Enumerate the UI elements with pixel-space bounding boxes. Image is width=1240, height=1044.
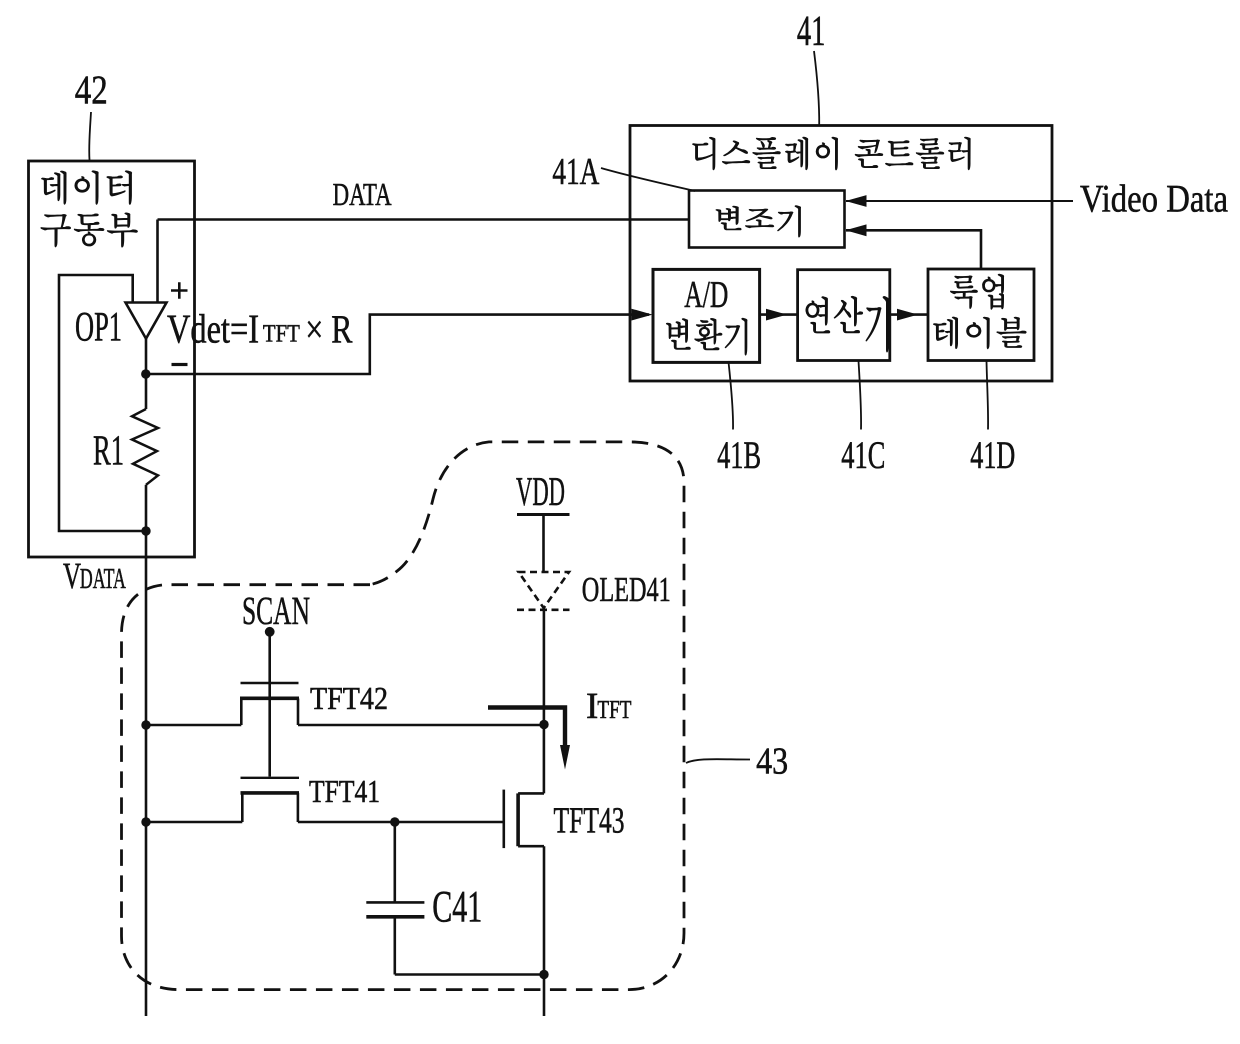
leader line 43	[686, 759, 750, 763]
junction node Vdet sense	[141, 369, 150, 378]
label 연산기	[806, 296, 888, 352]
transistor TFT41 channel	[241, 791, 300, 795]
block 41B: A/D converter box	[653, 269, 760, 362]
label 변환기	[666, 318, 747, 355]
wire Video Data into modulator	[846, 200, 1073, 202]
junction node TFT42 source	[141, 720, 150, 729]
wire bottom storage return	[395, 973, 544, 976]
arrow operator to lookup table	[890, 313, 928, 316]
OLED cathode bar (dashed)	[517, 608, 570, 611]
wire lookup table to modulator	[846, 230, 981, 269]
leader line 41B	[728, 361, 733, 430]
wire op-amp output	[145, 339, 148, 409]
svg-text:OP1: OP1	[75, 305, 122, 351]
TFT41 drain step	[297, 793, 300, 822]
leader line 41D	[987, 361, 989, 430]
arrow A/D to operator	[760, 313, 798, 316]
TFT42 source step	[240, 699, 243, 726]
capacitor C41 top lead	[393, 822, 396, 902]
block 41: display controller box	[630, 126, 1052, 382]
dashed pixel boundary 43	[122, 442, 685, 990]
wire TFT42 source to VDATA	[146, 724, 241, 727]
arrowhead into A/D	[632, 309, 653, 321]
label 변조기	[716, 206, 801, 237]
leader line 41A to modulator	[601, 168, 695, 191]
wire TFT43 source down	[543, 846, 546, 1016]
junction node drain	[539, 720, 548, 729]
wire TFT41 drain to TFT43 gate	[298, 821, 504, 824]
capacitor C41 bottom lead	[393, 917, 396, 975]
arrowhead Video Data	[846, 195, 867, 207]
svg-text:41B: 41B	[717, 434, 761, 477]
svg-text:OLED41: OLED41	[582, 570, 671, 609]
svg-text:42: 42	[75, 67, 108, 113]
wire SCAN gate line	[268, 632, 271, 777]
leader line to box 42	[89, 112, 91, 160]
SCAN terminal dot	[265, 627, 275, 637]
wire TFT41 source to VDATA	[146, 821, 242, 824]
label 테이블	[933, 317, 1026, 349]
block 41D: lookup table box	[928, 269, 1034, 361]
wire VDATA column	[145, 531, 148, 1016]
TFT42 drain step	[297, 699, 300, 726]
svg-text:DATA: DATA	[333, 176, 392, 212]
svg-text:TFT43: TFT43	[554, 801, 625, 842]
leader line to box 41	[814, 51, 819, 126]
block 41C: operator box	[798, 270, 890, 361]
label 구동부	[41, 213, 138, 247]
label 디스플레이 콘트롤러	[693, 137, 971, 170]
current indicator ITFT	[488, 708, 565, 749]
svg-text:TFT: TFT	[597, 695, 631, 724]
transistor TFT43 gate bar	[502, 790, 505, 849]
junction node VDATA feedback	[141, 526, 150, 535]
transistor TFT41 gate bar	[241, 777, 300, 779]
resistor R1 zigzag	[132, 409, 158, 485]
block 41A: modulator box	[689, 191, 845, 248]
svg-text:Video Data: Video Data	[1080, 178, 1228, 221]
label 데이터	[42, 171, 132, 204]
svg-text:TFT: TFT	[263, 321, 300, 348]
wire OLED cathode to TFT43 drain node	[543, 610, 546, 794]
leader line 41C	[859, 361, 862, 430]
capacitor C41 bottom plate	[366, 915, 424, 919]
junction node bottom	[539, 970, 548, 979]
transistor TFT42 gate bar	[241, 682, 299, 684]
TFT43 source step	[518, 845, 544, 848]
svg-text:V: V	[63, 556, 81, 597]
wire Vdet sense to A/D converter	[146, 315, 649, 374]
svg-text:DATA: DATA	[80, 563, 126, 595]
svg-text:TFT41: TFT41	[309, 773, 380, 809]
svg-text:41: 41	[797, 8, 826, 55]
transistor TFT43 channel	[516, 793, 520, 846]
svg-text:Vdet=I: Vdet=I	[167, 306, 259, 352]
wire DATA bus to modulator	[158, 218, 690, 221]
capacitor C41 top plate	[366, 901, 424, 904]
block 42: data driver box	[29, 161, 195, 557]
wire DATA: op-amp + input up to DATA bus	[156, 220, 159, 303]
wire feedback loop (minus input to VDATA node)	[59, 275, 146, 531]
svg-text:41A: 41A	[552, 151, 599, 193]
label − polarity	[172, 363, 188, 366]
label 룩업	[950, 274, 1003, 309]
wire R1 bottom	[145, 485, 148, 531]
label + polarity	[171, 282, 188, 299]
wire TFT42 drain to OLED node	[298, 724, 544, 727]
svg-text:R1: R1	[93, 428, 124, 475]
diode OLED41 (dashed)	[519, 572, 570, 608]
TFT41 source step	[241, 793, 244, 822]
svg-text:41D: 41D	[970, 434, 1015, 477]
TFT43 drain step	[518, 792, 544, 795]
wire VDD to OLED anode	[542, 515, 545, 573]
arrowhead lookup to modulator	[846, 224, 867, 236]
VDD supply bar	[517, 513, 570, 516]
svg-text:SCAN: SCAN	[242, 588, 310, 633]
junction node TFT41 source	[141, 817, 150, 826]
svg-text:VDD: VDD	[516, 468, 565, 514]
op-amp OP1 triangle	[126, 303, 167, 339]
svg-text:TFT42: TFT42	[310, 680, 388, 716]
svg-text:A/D: A/D	[684, 274, 728, 316]
svg-text:43: 43	[756, 741, 788, 783]
svg-text:× R: × R	[305, 307, 352, 352]
svg-text:C41: C41	[432, 882, 482, 932]
svg-text:41C: 41C	[841, 434, 885, 477]
junction node C41 tap	[390, 817, 399, 826]
transistor TFT42 channel	[240, 696, 299, 700]
